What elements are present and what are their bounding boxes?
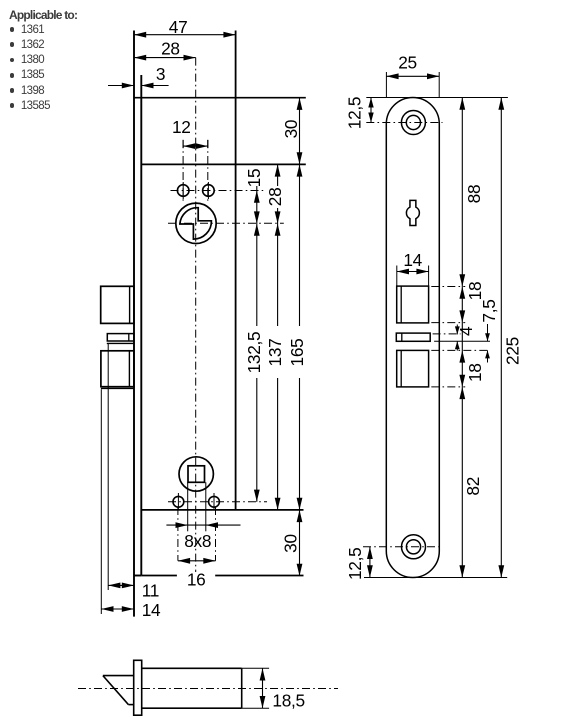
bottom-right hole extension	[215, 507, 217, 561]
upper cutout bottom ext	[431, 322, 465, 324]
dim 8x8 spindle	[166, 524, 240, 526]
faceplate cross-section	[134, 660, 142, 715]
top hole centerline	[366, 122, 442, 124]
svg-text:11: 11	[142, 580, 159, 600]
bottom fixing hole left	[173, 496, 184, 507]
faceplate back edge + extension for 3-dim	[140, 75, 142, 575]
svg-text:225: 225	[503, 337, 523, 365]
dim 12,5 top	[370, 98, 372, 123]
deadbolt cutout bottom ext	[431, 386, 465, 388]
svg-text:165: 165	[287, 339, 307, 367]
latch bottom ext	[242, 707, 269, 709]
faceplate bottom edge ext right part	[215, 575, 303, 577]
bottom-left hole vertical tick	[177, 493, 179, 511]
faceplate front edge + extension line	[133, 31, 135, 617]
vertical center line (spindle axis)	[195, 58, 197, 572]
dim 14 cutout width	[396, 266, 398, 287]
latch bolt inner line	[129, 286, 131, 323]
case top line + extension right	[141, 163, 305, 165]
aux bar inner line	[128, 334, 130, 341]
dim 12 top holes spacing	[182, 140, 184, 148]
svg-text:18: 18	[465, 282, 485, 301]
auxiliary latch bar	[107, 334, 134, 341]
dim 47	[134, 34, 236, 36]
chain dim line 88-18-18-82	[461, 98, 463, 578]
svg-text:47: 47	[169, 17, 188, 37]
plate top extension line	[366, 97, 508, 99]
svg-text:7,5: 7,5	[479, 299, 499, 322]
latch top ext	[242, 667, 269, 669]
latch bolt side view	[101, 286, 134, 323]
svg-text:12,5: 12,5	[345, 97, 365, 129]
top-right hole vertical tick	[207, 182, 209, 199]
svg-text:88: 88	[464, 185, 484, 204]
latch body	[142, 667, 242, 669]
svg-text:30: 30	[281, 120, 301, 139]
svg-text:28: 28	[161, 39, 180, 59]
top holes horizontal centerline	[171, 190, 264, 192]
cylinder horizontal centerline	[168, 222, 284, 224]
upper latch cutout	[397, 286, 429, 323]
svg-text:12,5: 12,5	[345, 548, 365, 580]
bottom screw hole outer	[402, 535, 426, 559]
top-left hole vertical tick	[182, 182, 184, 199]
follower circle	[179, 457, 213, 491]
spindle square 8x8	[188, 466, 205, 483]
svg-text:28: 28	[265, 188, 285, 207]
top screw hole inner	[406, 115, 420, 129]
svg-text:14: 14	[142, 600, 161, 620]
svg-text:137: 137	[265, 339, 285, 367]
dim 15 + dim 132,5 line	[256, 186, 258, 326]
dim 12,5 bottom	[369, 547, 371, 578]
8x8 right extension	[205, 482, 207, 531]
bottom-right hole vertical tick	[213, 493, 215, 511]
aux bar extension line down to 11-dim	[107, 343, 109, 590]
latch bevel head	[103, 675, 134, 677]
top fixing hole left	[177, 185, 189, 197]
deadbolt bottom second line	[101, 387, 134, 389]
dim 7,5	[487, 324, 489, 341]
svg-text:16: 16	[187, 569, 206, 589]
line under aux bar	[107, 342, 134, 344]
dim 28 + dim 137 line	[277, 164, 279, 186]
dim 225 total height	[500, 98, 502, 578]
svg-text:25: 25	[398, 52, 417, 72]
faceplate bottom edge	[134, 575, 141, 577]
dim 3 faceplate thickness	[108, 85, 134, 87]
8x8 left extension	[187, 482, 189, 531]
plate bottom extension line	[364, 577, 507, 579]
cylinder hole with cam	[176, 203, 216, 243]
oval cylinder keyway	[406, 200, 419, 225]
svg-text:4: 4	[456, 326, 476, 336]
bottom-left hole extension	[177, 507, 179, 561]
svg-text:18: 18	[465, 363, 485, 382]
applicable-to list	[8, 0, 10, 1]
deadbolt extension line down to 14-dim	[100, 389, 102, 614]
upper cutout top ext	[431, 286, 465, 288]
case bottom line + extension right	[141, 509, 303, 511]
faceplate bottom edge ext left part	[141, 575, 177, 577]
top fixing hole right	[203, 185, 215, 197]
svg-text:30: 30	[281, 534, 301, 553]
dim 25 plate width	[385, 72, 387, 98]
dim 14 deadbolt projection	[101, 608, 134, 610]
case back edge + extension to 47-dim	[235, 31, 237, 510]
right drawing: faceplate front view	[386, 98, 439, 578]
deadbolt inner line	[128, 351, 130, 387]
deadbolt cutout	[397, 350, 429, 387]
deadbolt side view	[101, 351, 134, 387]
top-right hole centerline	[207, 140, 209, 203]
svg-text:3: 3	[156, 64, 165, 84]
bottom fixing hole right	[209, 496, 220, 507]
svg-text:15: 15	[244, 169, 264, 188]
upper cutout inner line	[400, 286, 402, 323]
dim 4 aux slot height	[456, 325, 458, 335]
deadbolt cutout top ext	[431, 349, 489, 351]
top screw hole outer	[401, 111, 425, 135]
dim 28 backset	[134, 57, 196, 59]
aux slot bottom / center ext	[434, 340, 490, 342]
dim 18,5	[262, 668, 264, 708]
dim 11 aux latch projection	[108, 584, 134, 586]
svg-text:132,5: 132,5	[244, 332, 264, 374]
dim 30 + dim 165 + dim 30 line	[299, 98, 301, 326]
deadbolt cutout inner line	[400, 350, 402, 387]
faceplate top edge + extension right	[134, 97, 306, 99]
aux latch slot	[396, 333, 430, 341]
svg-text:8x8: 8x8	[184, 531, 211, 551]
bottom screw hole inner	[406, 540, 420, 554]
svg-text:14: 14	[403, 250, 422, 270]
aux slot top ext	[433, 333, 461, 335]
top-left hole centerline	[182, 140, 184, 203]
svg-text:82: 82	[463, 477, 483, 496]
bottom holes horizontal centerline	[168, 501, 267, 503]
svg-text:12: 12	[172, 117, 191, 137]
bottom hole centerline	[363, 546, 443, 548]
aux slot inner line	[401, 333, 403, 341]
dim 16 bottom holes	[178, 560, 216, 562]
svg-text:18,5: 18,5	[272, 690, 304, 710]
latch centerline	[78, 688, 338, 690]
